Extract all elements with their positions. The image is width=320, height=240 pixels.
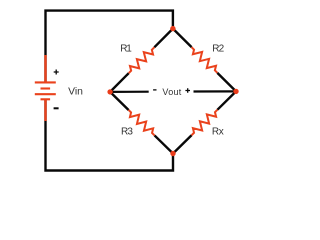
battery Vin plate short upper [41, 87, 51, 89]
battery plus sign [54, 70, 59, 75]
svg-text:Vout: Vout [162, 87, 181, 97]
node top junction dot [170, 26, 175, 31]
node right junction dot [233, 89, 238, 94]
resistor Rx zigzag [192, 110, 218, 136]
Vout plus sign [185, 88, 190, 93]
wire Vout left segment [110, 91, 149, 93]
node bottom junction dot [170, 151, 175, 156]
wire bottom: battery bottom to bridge bottom vertex [46, 99, 174, 171]
wire diagonal leads of Rx [173, 91, 236, 153]
wire diagonal leads of R2 [173, 29, 236, 92]
node left junction dot [107, 89, 112, 94]
battery Vin plate long lower [35, 93, 56, 95]
wire top: battery top to bridge top vertex [46, 11, 173, 83]
battery Vin plate long top [35, 81, 56, 83]
wire diagonal leads of R1 [110, 29, 173, 92]
resistor R3 zigzag [129, 110, 155, 135]
resistor R2 zigzag [192, 47, 218, 73]
svg-text:Rx: Rx [212, 126, 224, 137]
resistor R1 zigzag [129, 47, 155, 73]
battery Vin plate short bottom [41, 98, 51, 100]
svg-text:R3: R3 [121, 126, 133, 137]
Vout minus sign [153, 89, 156, 91]
svg-text:R1: R1 [120, 44, 132, 55]
wire diagonal leads of R3 [110, 92, 173, 154]
battery Vin lead top (orange) [44, 55, 46, 83]
svg-text:R2: R2 [212, 44, 224, 55]
svg-text:Vin: Vin [68, 87, 83, 98]
battery minus sign [54, 107, 59, 109]
battery Vin lead bottom (orange) [44, 99, 46, 121]
wire Vout right segment [194, 90, 237, 92]
